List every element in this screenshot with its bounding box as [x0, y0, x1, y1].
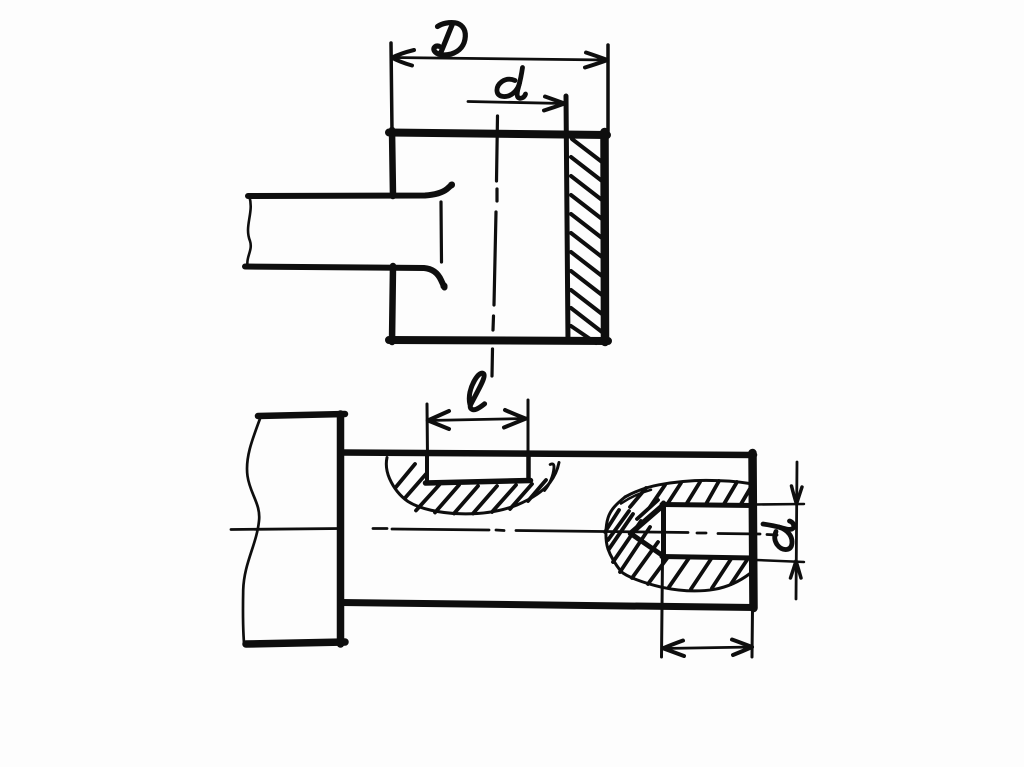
center hole broken-out section boundary	[606, 497, 750, 591]
arrowhead right	[544, 97, 565, 111]
curl tip blobs	[448, 182, 455, 189]
arrowhead right	[585, 53, 608, 68]
bushing top edge	[389, 133, 607, 136]
cone lower line	[631, 534, 665, 557]
punch bottom edge with flared end	[245, 267, 445, 288]
hole bottom line	[662, 557, 753, 559]
label D	[434, 23, 465, 55]
dimension d (lower right, vertical)	[756, 462, 804, 599]
chuck top edge	[258, 414, 345, 416]
hole top line	[662, 505, 753, 506]
arrowhead left	[428, 411, 449, 429]
lower view: chuck block	[243, 414, 345, 644]
horizontal centerline of lower view	[231, 529, 777, 536]
dimension line	[663, 647, 752, 649]
lower view: shaft body	[341, 453, 754, 609]
arrowhead right	[504, 410, 526, 428]
center hole outline	[631, 503, 754, 558]
hole left wall	[661, 503, 666, 558]
chuck right wall	[337, 414, 345, 644]
arrowhead right	[732, 640, 752, 656]
slot bottom	[426, 481, 531, 484]
center hole hatching	[605, 481, 751, 589]
dimension d (upper)	[468, 68, 565, 111]
extension line top	[756, 503, 804, 506]
extension line right	[527, 400, 530, 454]
cone upper line	[631, 505, 665, 534]
shaft top edge	[341, 453, 754, 456]
punch top edge with flared end	[248, 185, 452, 197]
dimension line	[428, 419, 526, 421]
inner double stroke near top-left of section boundary	[621, 490, 651, 504]
dimension D	[391, 23, 608, 132]
label d rotated	[763, 521, 794, 550]
shaft bottom edge	[341, 603, 754, 608]
dimension line	[468, 102, 564, 104]
bushing left wall lower part	[392, 266, 393, 342]
block break line	[243, 416, 261, 643]
keyway broken-out section boundary	[386, 458, 559, 514]
shaft break line	[247, 197, 250, 265]
shaft end face	[439, 202, 443, 262]
keyway section fold mark	[545, 464, 555, 491]
punch shaft entering from left	[245, 182, 455, 290]
dimension l (keyway length)	[427, 373, 528, 457]
upper view: bushing body outline	[389, 130, 608, 342]
section wall inner edge / extension line for d	[566, 96, 568, 342]
vertical centerline of upper view	[492, 116, 498, 376]
extension line right	[751, 609, 755, 657]
arrowhead down	[792, 486, 803, 504]
extension line bottom	[756, 560, 804, 562]
extension line left	[426, 404, 430, 457]
arrowhead left	[392, 50, 414, 66]
slot right wall	[526, 454, 531, 481]
dimension for hole depth (bottom)	[662, 558, 753, 657]
keyway slot	[426, 454, 531, 483]
label l script	[469, 373, 484, 410]
arrowhead up	[791, 561, 802, 578]
dimension line	[392, 58, 608, 61]
hatching of section wall	[571, 139, 602, 343]
extension line right	[606, 45, 610, 132]
arrowhead left	[663, 641, 684, 657]
keyway hatching	[396, 464, 546, 514]
extension line left	[662, 558, 663, 657]
shaft right end face	[753, 453, 754, 608]
bushing bottom edge	[389, 340, 608, 341]
extension line left	[391, 43, 392, 131]
label d	[497, 79, 520, 96]
dimension line vertical	[796, 462, 797, 599]
bushing right wall	[600, 132, 609, 342]
bushing left wall upper part	[392, 130, 393, 196]
slot left wall	[425, 456, 429, 482]
chuck bottom edge	[246, 642, 345, 644]
